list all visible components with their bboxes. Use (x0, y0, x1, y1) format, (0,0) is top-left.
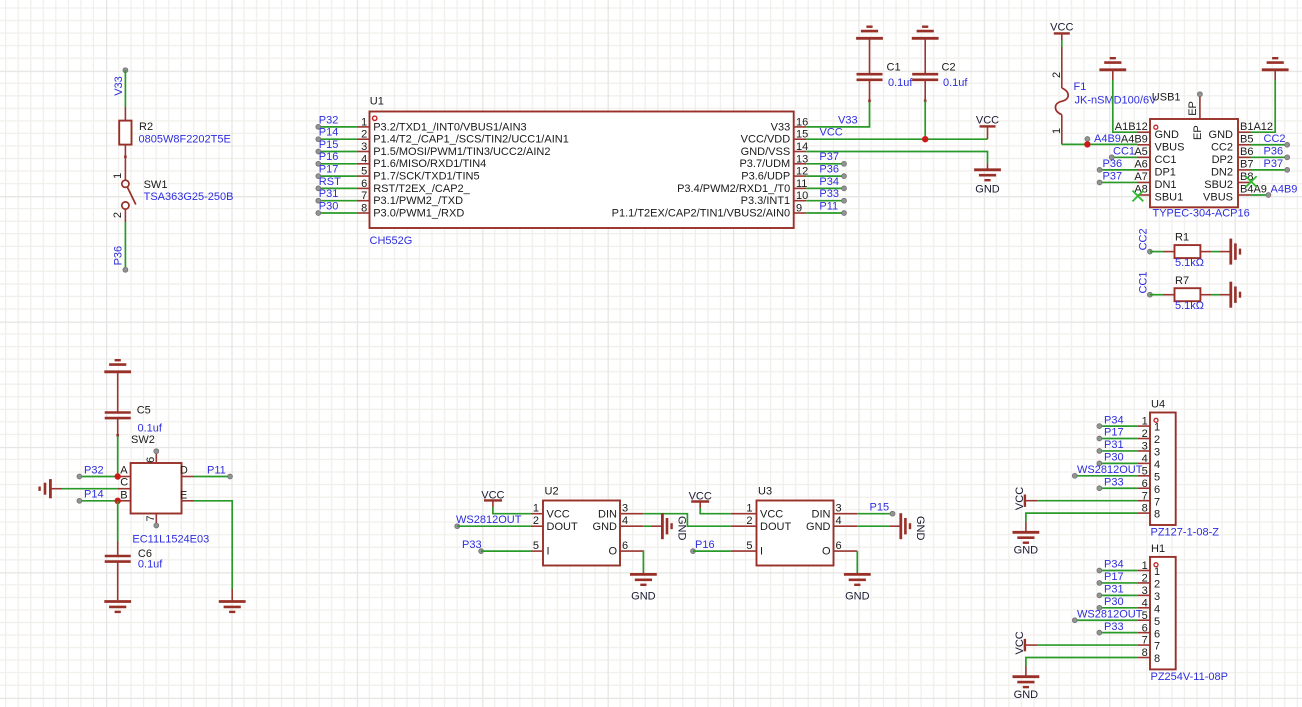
svg-text:TSA363G25-250B: TSA363G25-250B (144, 191, 234, 203)
svg-text:P3.7/UDM: P3.7/UDM (739, 158, 790, 170)
svg-text:P31: P31 (319, 188, 339, 200)
svg-text:SBU1: SBU1 (1155, 192, 1184, 204)
H1 pin 1 net P34 (1099, 570, 1137, 572)
led driver U3 (757, 501, 834, 566)
U4 pin 2 net P17 (1099, 438, 1137, 440)
svg-text:5: 5 (361, 166, 367, 178)
U4 pin 4 net P30 (1099, 462, 1137, 464)
svg-text:PZ254V-11-08P: PZ254V-11-08P (1151, 671, 1228, 683)
ground (below U2) (630, 573, 657, 576)
U1 pin 5 net P17 (357, 175, 370, 177)
svg-text:TYPEC-304-ACP16: TYPEC-304-ACP16 (1153, 208, 1250, 220)
U1 pin 9 name P1.1/T2EX/CAP2/TIN1/VBUS2/AIN0 (794, 212, 807, 214)
wire VCC to U2 pin1 (493, 507, 531, 514)
svg-text:5.1kΩ: 5.1kΩ (1175, 300, 1204, 312)
svg-text:5: 5 (1154, 471, 1160, 483)
svg-text:2: 2 (112, 212, 124, 218)
junction (115, 498, 121, 504)
mcu U1 (370, 112, 794, 229)
capacitor C6 (105, 555, 131, 558)
wire U2 O to ground (620, 550, 643, 552)
wire B to C6 (117, 501, 119, 541)
resistor R7 (1150, 294, 1163, 296)
svg-text:R2: R2 (139, 121, 153, 133)
svg-text:6: 6 (361, 178, 367, 190)
svg-text:4: 4 (836, 515, 842, 527)
net label P33 (806, 200, 844, 202)
svg-text:CC1: CC1 (1155, 154, 1177, 166)
wire GND to B1A12 (1274, 70, 1276, 80)
net label P32 (79, 476, 118, 478)
svg-text:1: 1 (112, 173, 124, 179)
svg-text:5.1kΩ: 5.1kΩ (1175, 257, 1204, 269)
svg-text:4: 4 (361, 153, 367, 165)
svg-text:A: A (120, 465, 128, 477)
svg-text:A4B9: A4B9 (1121, 133, 1148, 145)
net label CC1 (1112, 156, 1138, 158)
ground (above USB1 left) (1099, 68, 1126, 71)
svg-text:P15: P15 (319, 139, 339, 151)
power flag VCC (H1) (1024, 639, 1026, 651)
net label WS2812OUT (455, 524, 460, 529)
svg-text:7: 7 (361, 190, 367, 202)
header H1 (1150, 557, 1176, 670)
svg-text:P11: P11 (819, 200, 838, 212)
wire net VCC (806, 138, 987, 140)
svg-text:P14: P14 (319, 127, 339, 139)
svg-text:DN1: DN1 (1155, 179, 1177, 191)
svg-text:CH552G: CH552G (370, 235, 413, 247)
wire GND to A1B12 (1112, 70, 1114, 80)
USB1 left pin A4B9 / right pin B5 (1138, 144, 1151, 146)
svg-text:VBUS: VBUS (1203, 192, 1233, 204)
svg-text:3: 3 (836, 503, 842, 515)
svg-text:P1.4/T2_/CAP1_/SCS/TIN2/UCC1/A: P1.4/T2_/CAP1_/SCS/TIN2/UCC1/AIN1 (373, 134, 569, 146)
H1 pin 4 net P30 (1099, 607, 1137, 609)
U1 pin 10 name P3.3/INT1 (794, 200, 807, 202)
svg-text:P3.4/PWM2/RXD1_/T0: P3.4/PWM2/RXD1_/T0 (677, 183, 790, 195)
svg-text:P16: P16 (319, 151, 339, 163)
svg-text:WS2812OUT: WS2812OUT (456, 514, 522, 526)
svg-text:P1.5/MOSI/PWM1/TIN3/UCC2/AIN2: P1.5/MOSI/PWM1/TIN3/UCC2/AIN2 (373, 146, 550, 158)
svg-text:GND/VSS: GND/VSS (741, 146, 791, 158)
svg-text:P3.1/PWM2_/TXD: P3.1/PWM2_/TXD (373, 195, 463, 207)
wire VCC to U3 pin1 (700, 508, 731, 514)
svg-text:P16: P16 (695, 539, 715, 551)
svg-text:2: 2 (1154, 579, 1160, 591)
svg-text:DIN: DIN (812, 508, 831, 520)
svg-text:GND: GND (593, 521, 618, 533)
svg-text:11: 11 (796, 178, 807, 190)
svg-text:DN2: DN2 (1211, 166, 1233, 178)
net label P15 (834, 513, 858, 515)
ground (R1) (1229, 239, 1232, 265)
svg-text:U1: U1 (370, 96, 384, 108)
U4 pin 1 net P34 (1099, 425, 1137, 427)
wire U3 GND (834, 525, 858, 527)
U1 pin 3 net P15 (357, 151, 370, 153)
ground (above C5) (104, 370, 131, 373)
svg-text:P37: P37 (1264, 158, 1284, 170)
led driver U2 (543, 501, 620, 566)
svg-text:VCC/VDD: VCC/VDD (741, 134, 791, 146)
U1 pin 4 net P16 (357, 163, 370, 165)
junction (115, 473, 121, 479)
svg-text:9: 9 (796, 203, 802, 215)
svg-text:P37: P37 (819, 151, 839, 163)
svg-text:P17: P17 (319, 164, 339, 176)
ground (below E) (219, 600, 246, 603)
svg-text:GND: GND (1209, 129, 1234, 141)
ground (R7) (1229, 282, 1232, 308)
net label P34 (806, 187, 844, 189)
svg-text:WS2812OUT: WS2812OUT (1077, 608, 1143, 620)
svg-text:GND: GND (845, 590, 870, 602)
svg-text:C2: C2 (942, 62, 956, 74)
svg-text:GND: GND (631, 590, 656, 602)
header U4 (1150, 413, 1176, 526)
svg-text:U2: U2 (545, 486, 559, 498)
svg-text:U4: U4 (1151, 399, 1165, 411)
wire VCC to U4 pin7 (1037, 500, 1137, 502)
resistor R2 (124, 107, 126, 121)
svg-text:U3: U3 (758, 486, 772, 498)
H1 pin 2 net P17 (1099, 582, 1137, 584)
svg-text:0.1uf: 0.1uf (888, 77, 913, 89)
svg-text:4: 4 (1154, 603, 1160, 615)
svg-text:C1: C1 (887, 62, 901, 74)
svg-text:EP: EP (1192, 125, 1204, 140)
U1 pin 11 name P3.4/PWM2/RXD1_/T0 (794, 187, 807, 189)
wire net V33 (806, 101, 869, 127)
U4 pin 6 net P33 (1099, 487, 1137, 489)
svg-text:P33: P33 (462, 539, 482, 551)
net label P37 (A7) (1100, 181, 1138, 183)
svg-text:P1.1/T2EX/CAP2/TIN1/VBUS2/AIN0: P1.1/T2EX/CAP2/TIN1/VBUS2/AIN0 (612, 207, 791, 219)
svg-text:1: 1 (746, 503, 752, 515)
ground (above C2) (912, 37, 939, 40)
svg-text:P34: P34 (1104, 414, 1124, 426)
svg-text:1: 1 (1154, 422, 1160, 434)
svg-text:7: 7 (145, 515, 157, 521)
svg-text:5: 5 (746, 540, 752, 552)
svg-text:2: 2 (1154, 434, 1160, 446)
svg-text:4: 4 (1154, 459, 1160, 471)
svg-text:A4B9: A4B9 (1094, 133, 1121, 145)
svg-text:VCC: VCC (820, 127, 843, 139)
wire C2 to VCC net (924, 101, 926, 139)
svg-text:8: 8 (1154, 509, 1160, 521)
svg-text:P33: P33 (1104, 476, 1124, 488)
U1 pin 16 name V33 (794, 126, 807, 128)
svg-text:P31: P31 (1104, 584, 1124, 596)
svg-text:P33: P33 (819, 188, 839, 200)
power flag GND (987, 164, 989, 170)
svg-text:1: 1 (361, 116, 367, 128)
svg-text:GND: GND (1014, 545, 1039, 557)
junction (922, 136, 928, 142)
svg-text:3: 3 (1154, 447, 1160, 459)
fuse F1 (1061, 47, 1063, 88)
svg-text:P15: P15 (870, 502, 890, 514)
usb connector USB1 (1150, 119, 1238, 207)
svg-text:GND: GND (1014, 689, 1039, 701)
svg-text:H1: H1 (1151, 543, 1165, 555)
wire U3 O to ground (834, 550, 858, 552)
wire net GND (806, 152, 987, 164)
H1 pin 5 net WS2812OUT (1075, 619, 1138, 621)
svg-text:V33: V33 (113, 76, 125, 96)
svg-text:EP: EP (1187, 101, 1199, 116)
wire GND to H1 pin8 (1026, 658, 1138, 667)
svg-text:CC2: CC2 (1211, 141, 1233, 153)
svg-text:GND: GND (914, 516, 926, 541)
ground (H1) (1013, 675, 1040, 678)
svg-text:E: E (180, 489, 187, 501)
wire E to ground (182, 500, 195, 502)
svg-text:P30: P30 (1104, 452, 1124, 464)
svg-text:P32: P32 (319, 114, 339, 126)
svg-text:VCC: VCC (547, 508, 570, 520)
svg-text:P33: P33 (1104, 621, 1124, 633)
svg-text:8: 8 (1154, 653, 1160, 665)
SW2 pin 6 (top) (155, 451, 157, 463)
ground (U4) (1013, 531, 1040, 534)
U4 pin 5 net WS2812OUT (1075, 475, 1138, 477)
U1 pin 13 name P3.7/UDM (794, 163, 807, 165)
net label P11 (806, 212, 844, 214)
svg-text:B7: B7 (1240, 158, 1253, 170)
USB1 left pin A7 / right pin B8 (1138, 181, 1151, 183)
net label A4B9 (1086, 139, 1088, 144)
svg-text:B6: B6 (1240, 146, 1253, 158)
resistor R1 (1150, 251, 1163, 253)
svg-text:R7: R7 (1175, 275, 1189, 287)
net label P37 (806, 163, 844, 165)
U1 pin 14 name GND/VSS (794, 151, 807, 153)
svg-text:A5: A5 (1134, 146, 1147, 158)
svg-text:GND: GND (806, 521, 831, 533)
capacitor C5 (117, 372, 119, 413)
svg-text:P37: P37 (1103, 170, 1123, 182)
ground (U3 GND pin) (899, 513, 902, 539)
svg-text:V33: V33 (771, 121, 791, 133)
svg-text:P34: P34 (1104, 559, 1124, 571)
svg-text:P17: P17 (1104, 571, 1124, 583)
svg-text:1: 1 (533, 503, 539, 515)
svg-text:0805W8F2202T5E: 0805W8F2202T5E (139, 134, 231, 146)
wire U2 DIN to U3 DOUT (620, 513, 643, 515)
svg-text:6: 6 (1154, 484, 1160, 496)
switch SW1 (124, 157, 126, 181)
svg-text:VCC: VCC (1050, 21, 1073, 33)
svg-text:0.1uf: 0.1uf (138, 423, 163, 435)
net label CC2 (B5) (1251, 144, 1288, 146)
svg-text:VCC: VCC (1014, 487, 1026, 510)
ground (below U3) (844, 573, 871, 576)
svg-text:B: B (120, 489, 127, 501)
svg-text:P3.3/INT1: P3.3/INT1 (741, 195, 791, 207)
ground (U2 GND pin) (661, 513, 664, 539)
ground (left of SW2) (49, 479, 52, 498)
no-connect A8 (1133, 191, 1144, 202)
net label P36 (A6) (1100, 169, 1138, 171)
svg-text:8: 8 (361, 203, 367, 215)
svg-text:3: 3 (361, 141, 367, 153)
net label P16 (691, 549, 696, 554)
net label P33 (479, 549, 484, 554)
svg-text:P30: P30 (1104, 596, 1124, 608)
capacitor C2 (924, 38, 926, 74)
svg-text:1: 1 (1051, 128, 1063, 134)
ground (above C1) (856, 37, 883, 40)
svg-text:A6: A6 (1134, 158, 1147, 170)
svg-text:C5: C5 (137, 405, 151, 417)
svg-text:P1.6/MISO/RXD1/TIN4: P1.6/MISO/RXD1/TIN4 (373, 158, 486, 170)
wire ground to C (50, 488, 62, 490)
svg-text:RST/T2EX_/CAP2_: RST/T2EX_/CAP2_ (373, 183, 470, 195)
svg-text:WS2812OUT: WS2812OUT (1077, 464, 1143, 476)
svg-text:P36: P36 (819, 164, 839, 176)
svg-text:V33: V33 (838, 114, 858, 126)
net label P14 (79, 500, 118, 502)
svg-text:VCC: VCC (1014, 631, 1026, 654)
svg-text:B4A9: B4A9 (1240, 184, 1267, 196)
svg-text:3: 3 (1154, 591, 1160, 603)
svg-text:P3.6/UDP: P3.6/UDP (741, 171, 790, 183)
svg-text:SBU2: SBU2 (1204, 179, 1233, 191)
power flag VCC (980, 125, 996, 127)
svg-text:GND: GND (1155, 129, 1180, 141)
svg-text:0.1uf: 0.1uf (943, 77, 968, 89)
svg-text:SW2: SW2 (131, 434, 155, 446)
svg-text:CC1: CC1 (1113, 146, 1135, 158)
wire (1061, 40, 1063, 47)
U1 pin 12 name P3.6/UDP (794, 175, 807, 177)
svg-text:VCC: VCC (760, 508, 783, 520)
svg-text:P3.0/PWM1_/RXD: P3.0/PWM1_/RXD (373, 207, 464, 219)
svg-text:I: I (760, 546, 763, 558)
USB1 left pin A8 / right pin B4A9 (1138, 194, 1151, 196)
svg-text:5: 5 (1154, 616, 1160, 628)
svg-text:VCC: VCC (976, 114, 999, 126)
svg-text:DIN: DIN (598, 508, 617, 520)
wire F1 to VBUS (1062, 143, 1138, 145)
svg-text:I: I (547, 546, 550, 558)
H1 pin 3 net P31 (1099, 594, 1137, 596)
net label P36 (124, 222, 126, 270)
svg-text:A7: A7 (1134, 171, 1147, 183)
svg-text:6: 6 (622, 540, 628, 552)
net label V33 (123, 68, 128, 73)
svg-text:P30: P30 (319, 200, 339, 212)
ground (above USB1 right) (1262, 68, 1289, 71)
U1 pin 7 net P31 (357, 200, 370, 202)
U1 pin 1 net P32 (357, 126, 370, 128)
net label P37 (B7) (1251, 169, 1288, 171)
svg-text:O: O (822, 546, 831, 558)
power flag VCC (U4) (1024, 494, 1026, 506)
svg-text:R1: R1 (1175, 232, 1189, 244)
net label A4B9 (B4A9) (1251, 194, 1269, 196)
svg-text:0.1uf: 0.1uf (138, 559, 163, 571)
svg-text:P31: P31 (1104, 439, 1124, 451)
net label P11 (182, 476, 195, 478)
svg-text:B5: B5 (1240, 133, 1253, 145)
svg-text:2: 2 (746, 515, 752, 527)
svg-text:2: 2 (1051, 72, 1063, 78)
U4 pin 3 net P31 (1099, 450, 1137, 452)
svg-text:P32: P32 (84, 464, 104, 476)
svg-text:A4B9: A4B9 (1271, 184, 1298, 196)
svg-text:1: 1 (1154, 566, 1160, 578)
svg-text:4: 4 (622, 515, 628, 527)
svg-text:DP2: DP2 (1212, 154, 1233, 166)
svg-text:P11: P11 (207, 464, 226, 476)
svg-text:6: 6 (836, 540, 842, 552)
svg-text:P1.7/SCK/TXD1/TIN5: P1.7/SCK/TXD1/TIN5 (373, 171, 479, 183)
ground (below C6) (104, 600, 131, 603)
svg-text:CC2: CC2 (1138, 228, 1150, 250)
svg-text:P14: P14 (84, 489, 104, 501)
wire C5 to encoder (117, 436, 119, 477)
svg-text:DOUT: DOUT (547, 521, 578, 533)
svg-text:P3.2/TXD1_/INT0/VBUS1/AIN3: P3.2/TXD1_/INT0/VBUS1/AIN3 (373, 121, 526, 133)
svg-text:DOUT: DOUT (760, 521, 791, 533)
net label P36 (806, 175, 844, 177)
svg-text:6: 6 (145, 457, 157, 463)
SW2 pin 7 (bottom) (155, 514, 157, 526)
svg-text:A1B12: A1B12 (1115, 121, 1148, 133)
svg-text:P36: P36 (113, 246, 125, 266)
svg-text:P36: P36 (1264, 145, 1284, 157)
U1 pin 8 net P30 (357, 212, 370, 214)
wire VCC to H1 pin7 (1037, 644, 1137, 646)
svg-text:D: D (180, 465, 188, 477)
H1 pin 6 net P33 (1099, 632, 1137, 634)
svg-text:DP1: DP1 (1155, 166, 1176, 178)
svg-text:5: 5 (533, 540, 539, 552)
svg-text:PZ127-1-08-Z: PZ127-1-08-Z (1151, 527, 1220, 539)
USB1 left pin A1B12 / right pin B1A12 (1138, 131, 1151, 133)
USB1 left pin A5 / right pin B6 (1138, 156, 1151, 158)
svg-text:F1: F1 (1074, 81, 1087, 93)
U1 pin 6 net RST (357, 187, 370, 189)
svg-text:C: C (120, 476, 128, 488)
USB1 left pin A6 / right pin B7 (1138, 169, 1151, 171)
capacitor C1 (869, 38, 871, 74)
svg-text:EC11L1524E03: EC11L1524E03 (132, 534, 209, 546)
svg-text:VBUS: VBUS (1155, 141, 1185, 153)
svg-text:CC2: CC2 (1264, 133, 1286, 145)
svg-text:GND: GND (975, 184, 1000, 196)
net label P36 (B6) (1251, 156, 1288, 158)
svg-text:3: 3 (622, 503, 628, 515)
svg-text:P17: P17 (1104, 427, 1124, 439)
U1 pin 15 name VCC/VDD (794, 138, 807, 140)
svg-text:JK-nSMD100/6V: JK-nSMD100/6V (1075, 95, 1158, 107)
svg-text:6: 6 (1154, 628, 1160, 640)
svg-text:7: 7 (1154, 496, 1160, 508)
wire (124, 70, 126, 107)
svg-text:B1A12: B1A12 (1240, 121, 1273, 133)
svg-text:GND: GND (676, 516, 688, 541)
junction (1084, 141, 1090, 147)
wire GND to U4 pin8 (1026, 513, 1138, 522)
svg-text:O: O (608, 546, 617, 558)
wire U2 GND (620, 525, 643, 527)
svg-text:P36: P36 (1103, 158, 1123, 170)
